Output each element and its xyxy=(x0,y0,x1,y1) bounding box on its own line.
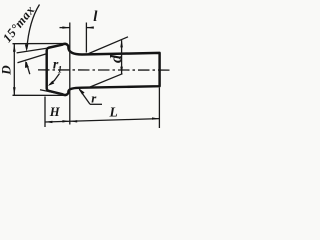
svg-text:d: d xyxy=(108,54,125,63)
H arrows xyxy=(45,121,52,123)
d oblique extension lines xyxy=(89,37,129,54)
D extension line top xyxy=(13,43,65,45)
l dimension: extension lines xyxy=(69,23,71,125)
rivet dimensional drawing xyxy=(0,0,171,131)
D dimension line with arrows xyxy=(13,44,16,96)
rivet body outline (thick) xyxy=(47,44,160,95)
D extension line bottom xyxy=(13,94,65,96)
svg-text:L: L xyxy=(109,105,118,120)
svg-text:D: D xyxy=(0,65,14,76)
svg-text:H: H xyxy=(49,105,61,119)
L right extension line xyxy=(158,88,160,129)
svg-text:1: 1 xyxy=(58,64,63,74)
r leader with shelf xyxy=(79,89,90,104)
l dimension line with outside arrows xyxy=(60,27,94,29)
bottom side taper short extension xyxy=(40,90,63,95)
centerline (axis), dash-dot xyxy=(38,69,171,71)
max-taper alternative face line with arrow xyxy=(18,54,47,74)
15deg max arc dimension with arrow xyxy=(27,5,40,50)
H extension lines xyxy=(44,97,46,128)
d dimension line with arrows xyxy=(121,40,123,74)
head side taper extension line (left, toward 15deg arc) xyxy=(17,48,48,53)
H and L dimension line xyxy=(45,119,159,122)
L arrows xyxy=(70,120,77,122)
